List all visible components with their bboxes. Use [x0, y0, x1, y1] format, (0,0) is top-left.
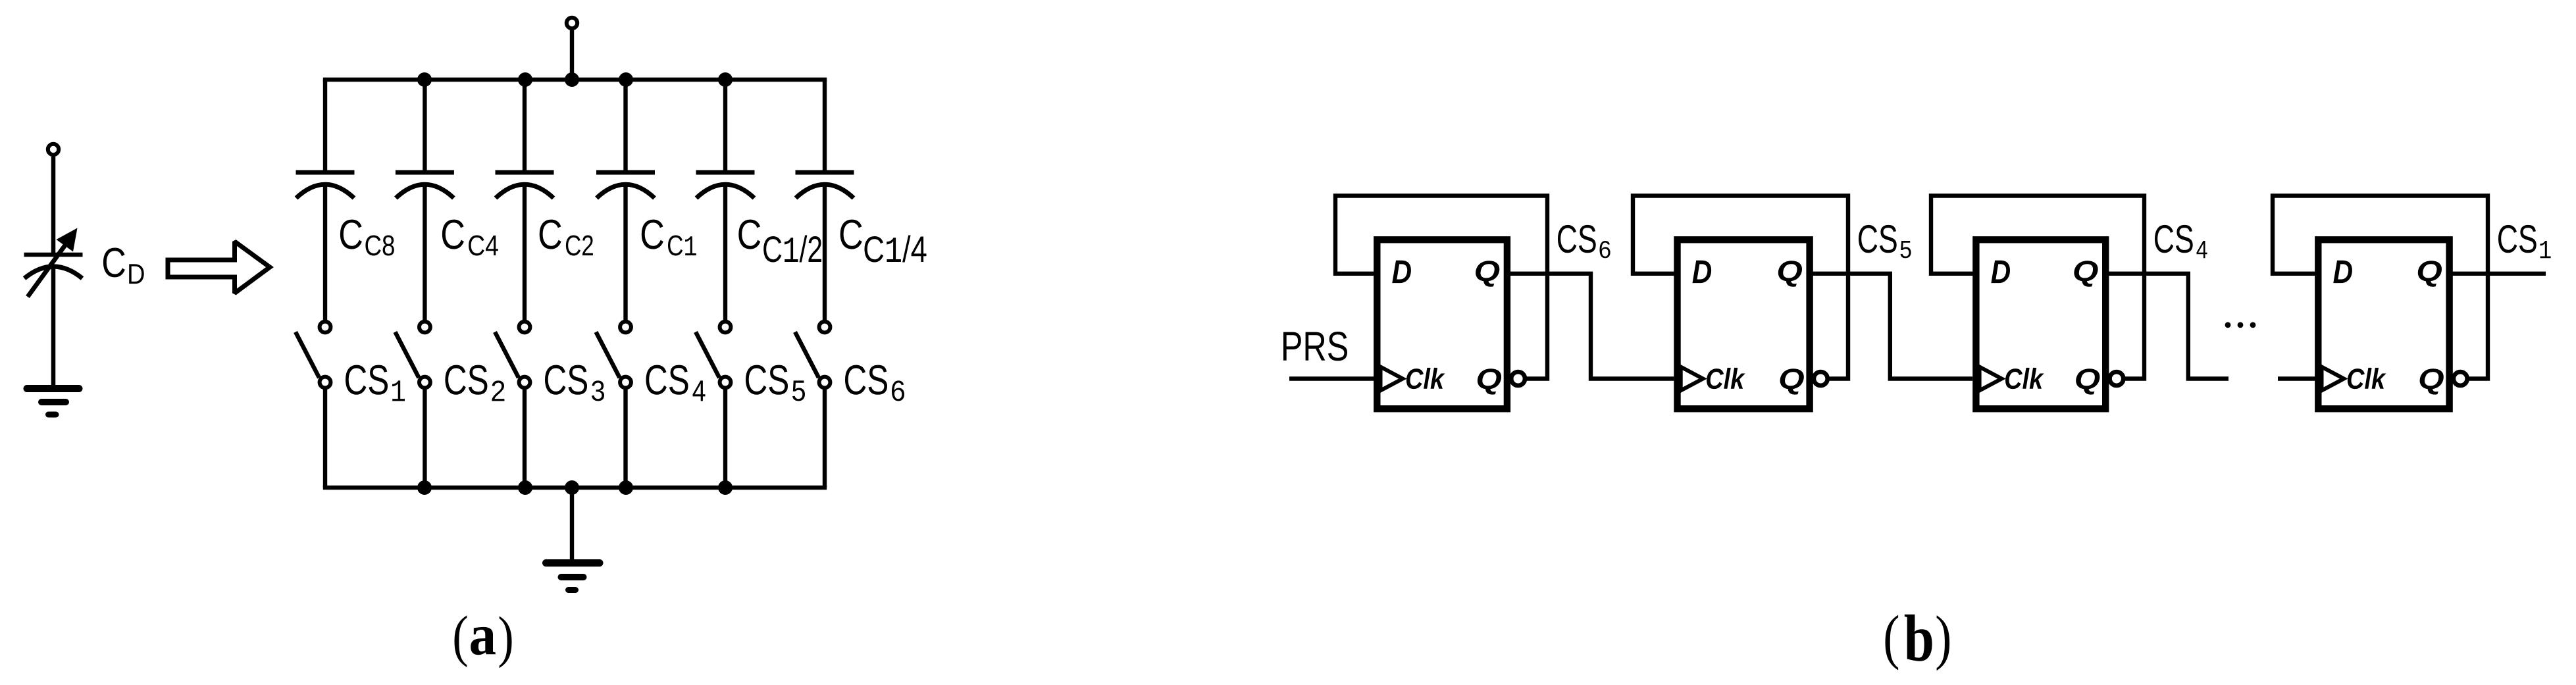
U3 pin label D [1991, 261, 2010, 283]
U4 clock edge triangle [2322, 367, 2344, 391]
wire: CS1 to bottom rail [323, 390, 327, 488]
capacitor CC1/2 curved plate [696, 184, 754, 198]
label CC2 [540, 220, 561, 249]
U4 inverted output bubble [2454, 372, 2467, 386]
label CC1/4 [840, 220, 862, 249]
label CS1 [346, 365, 388, 395]
wire: U1 feedback Qbar to D [1335, 196, 1547, 379]
capacitor CC1/2 upper wire [723, 80, 727, 170]
wire: U1 Q output to U2 clock [1509, 274, 1674, 379]
label CC1 [642, 220, 663, 249]
wire: CS2 to bottom rail [423, 390, 426, 488]
U3 pin label Clk [2005, 368, 2044, 389]
U2 pin label Clk [1707, 368, 1745, 389]
switch CS3 blade [495, 332, 519, 378]
wire: U3 Q output to U4 clock [2107, 274, 2228, 379]
switch CS4 blade [596, 332, 620, 378]
switch CS6 bottom contact [819, 377, 831, 388]
label CS6 [1558, 225, 1596, 253]
capacitor CC4 upper wire [423, 80, 426, 170]
D flip-flop U4 body [2318, 240, 2449, 409]
switch CS5 top contact [720, 322, 731, 333]
label CS2 [445, 365, 487, 395]
capacitor CC8 upper wire [323, 80, 327, 170]
capacitor CC8 top plate [296, 170, 355, 175]
wire: U2 feedback Qbar to D [1633, 196, 1848, 379]
wire: CD to ground [51, 266, 56, 387]
wire: clock stub into U4 [2278, 376, 2315, 380]
wire: CC1 to switch CS4 [623, 184, 627, 320]
capacitor CC2 top plate [496, 170, 554, 175]
switch CS2 top contact [419, 322, 430, 333]
junction top rail x=951 [619, 72, 633, 87]
caption (b) [1886, 615, 1899, 671]
label CS4 [646, 365, 688, 395]
wire: CC2 to switch CS3 [523, 184, 527, 320]
U1 clock edge triangle [1381, 367, 1403, 391]
label PRS [1283, 332, 1347, 361]
capacitor CC1 upper wire [623, 80, 627, 170]
capacitor CC8 curved plate [296, 184, 354, 198]
U3 inverted output bubble [2110, 372, 2124, 386]
wire: top rail [323, 78, 827, 82]
arrow: CD realized as capacitor bank [168, 241, 270, 293]
junction bottom rail x=951 [619, 480, 633, 495]
U1 pin label Q [1476, 261, 1499, 286]
capacitor CC1/4 top plate [796, 170, 854, 175]
wire: bottom rail [323, 486, 827, 490]
switch CS4 bottom contact [620, 377, 631, 388]
wire: CS5 to bottom rail [723, 390, 727, 488]
variable arrow across CD [28, 241, 68, 297]
switch CS5 bottom contact [720, 377, 731, 388]
wire: CS6 to bottom rail [823, 390, 827, 488]
wire: CS3 to bottom rail [523, 390, 527, 488]
capacitor CC4 top plate [396, 170, 454, 175]
junction top rail x=1102 [718, 72, 733, 87]
U1 inverted output bubble [1511, 372, 1525, 386]
U2 pin label Qbar [1780, 368, 1804, 394]
capacitor CD curved bottom plate [24, 266, 82, 278]
U3 pin label Q [2074, 261, 2098, 286]
U4 pin label D [2333, 261, 2352, 283]
U2 inverted output bubble [1814, 372, 1828, 386]
switch CS2 blade [395, 332, 419, 378]
label CS5 [746, 365, 788, 395]
wire: terminal stub [570, 30, 574, 82]
label CC8 [340, 220, 362, 249]
U2 pin label D [1693, 261, 1712, 283]
switch CS1 bottom contact [320, 377, 331, 388]
switch CS2 bottom contact [419, 377, 430, 388]
U3 pin label Qbar [2076, 368, 2099, 394]
capacitor CC1/4 curved plate [796, 184, 854, 198]
U1 pin label D [1392, 261, 1411, 283]
wire: CC8 to switch CS1 [323, 184, 327, 320]
wire: PRS input [1289, 376, 1377, 380]
wire: CS4 to bottom rail [623, 390, 627, 488]
label CS3 [545, 365, 587, 395]
switch CS3 top contact [519, 322, 530, 333]
junction top rail x=645 [417, 72, 432, 87]
wire: CC4 to switch CS2 [423, 184, 426, 320]
switch CS6 top contact [819, 322, 831, 333]
U2 pin label Q [1778, 261, 1802, 286]
wire: bottom rail to ground [570, 488, 574, 561]
label CD [103, 248, 125, 278]
junction bottom rail x=798 [518, 480, 532, 495]
switch CS4 top contact [620, 322, 631, 333]
U3 clock edge triangle [1980, 367, 2002, 391]
label CS4 [2155, 225, 2193, 253]
D flip-flop U3 body [1976, 240, 2105, 409]
label CC4 [442, 220, 464, 249]
label CS1 [2498, 225, 2537, 253]
node: CD input terminal [48, 144, 59, 155]
U1 pin label Qbar [1478, 368, 1501, 394]
ellipsis between U3 and U4 [2225, 322, 2231, 328]
junction bottom rail x=645 [417, 480, 432, 495]
U4 pin label Q [2418, 261, 2442, 286]
capacitor CC2 curved plate [496, 184, 554, 198]
wire: CD terminal to top plate [51, 157, 56, 253]
capacitor CC1/4 upper wire [823, 80, 827, 170]
capacitor CD top plate [24, 253, 83, 257]
capacitor CC1/2 top plate [696, 170, 755, 175]
caption (a) [455, 615, 467, 667]
label CC1/2 [738, 220, 760, 249]
label CS6 [845, 365, 887, 395]
switch CS5 blade [696, 332, 719, 378]
ground below CD [27, 389, 79, 415]
wire: U4 Q output (CS1) [2452, 272, 2546, 276]
capacitor CC1 top plate [596, 170, 655, 175]
switch CS6 blade [795, 332, 819, 378]
label CS5 [1859, 225, 1897, 253]
node: bank top terminal [567, 18, 577, 28]
U1 pin label Clk [1406, 368, 1445, 389]
wire: U2 Q output to U3 clock [1812, 274, 1972, 379]
U4 pin label Clk [2348, 368, 2386, 389]
U2 clock edge triangle [1681, 367, 1703, 391]
D flip-flop U2 body [1678, 240, 1810, 409]
wire: U3 feedback Qbar to D [1931, 196, 2144, 379]
capacitor CC1 curved plate [597, 184, 655, 198]
switch CS1 blade [296, 332, 319, 378]
switch CS3 bottom contact [519, 377, 530, 388]
wire: U4 feedback Qbar to D [2273, 196, 2488, 379]
D flip-flop U1 body [1377, 240, 1507, 409]
capacitor CC4 curved plate [396, 184, 453, 198]
ground of capacitor bank [546, 563, 600, 590]
junction bottom rail x=869 [565, 480, 579, 495]
junction bottom rail x=1102 [718, 480, 733, 495]
capacitor CC2 upper wire [523, 80, 527, 170]
junction top rail x=869 [565, 72, 579, 87]
U4 pin label Qbar [2420, 368, 2444, 394]
switch CS1 top contact [320, 322, 331, 333]
junction top rail x=798 [518, 72, 532, 87]
wire: CC1/2 to switch CS5 [723, 184, 727, 320]
wire: CC1/4 to switch CS6 [823, 184, 827, 320]
